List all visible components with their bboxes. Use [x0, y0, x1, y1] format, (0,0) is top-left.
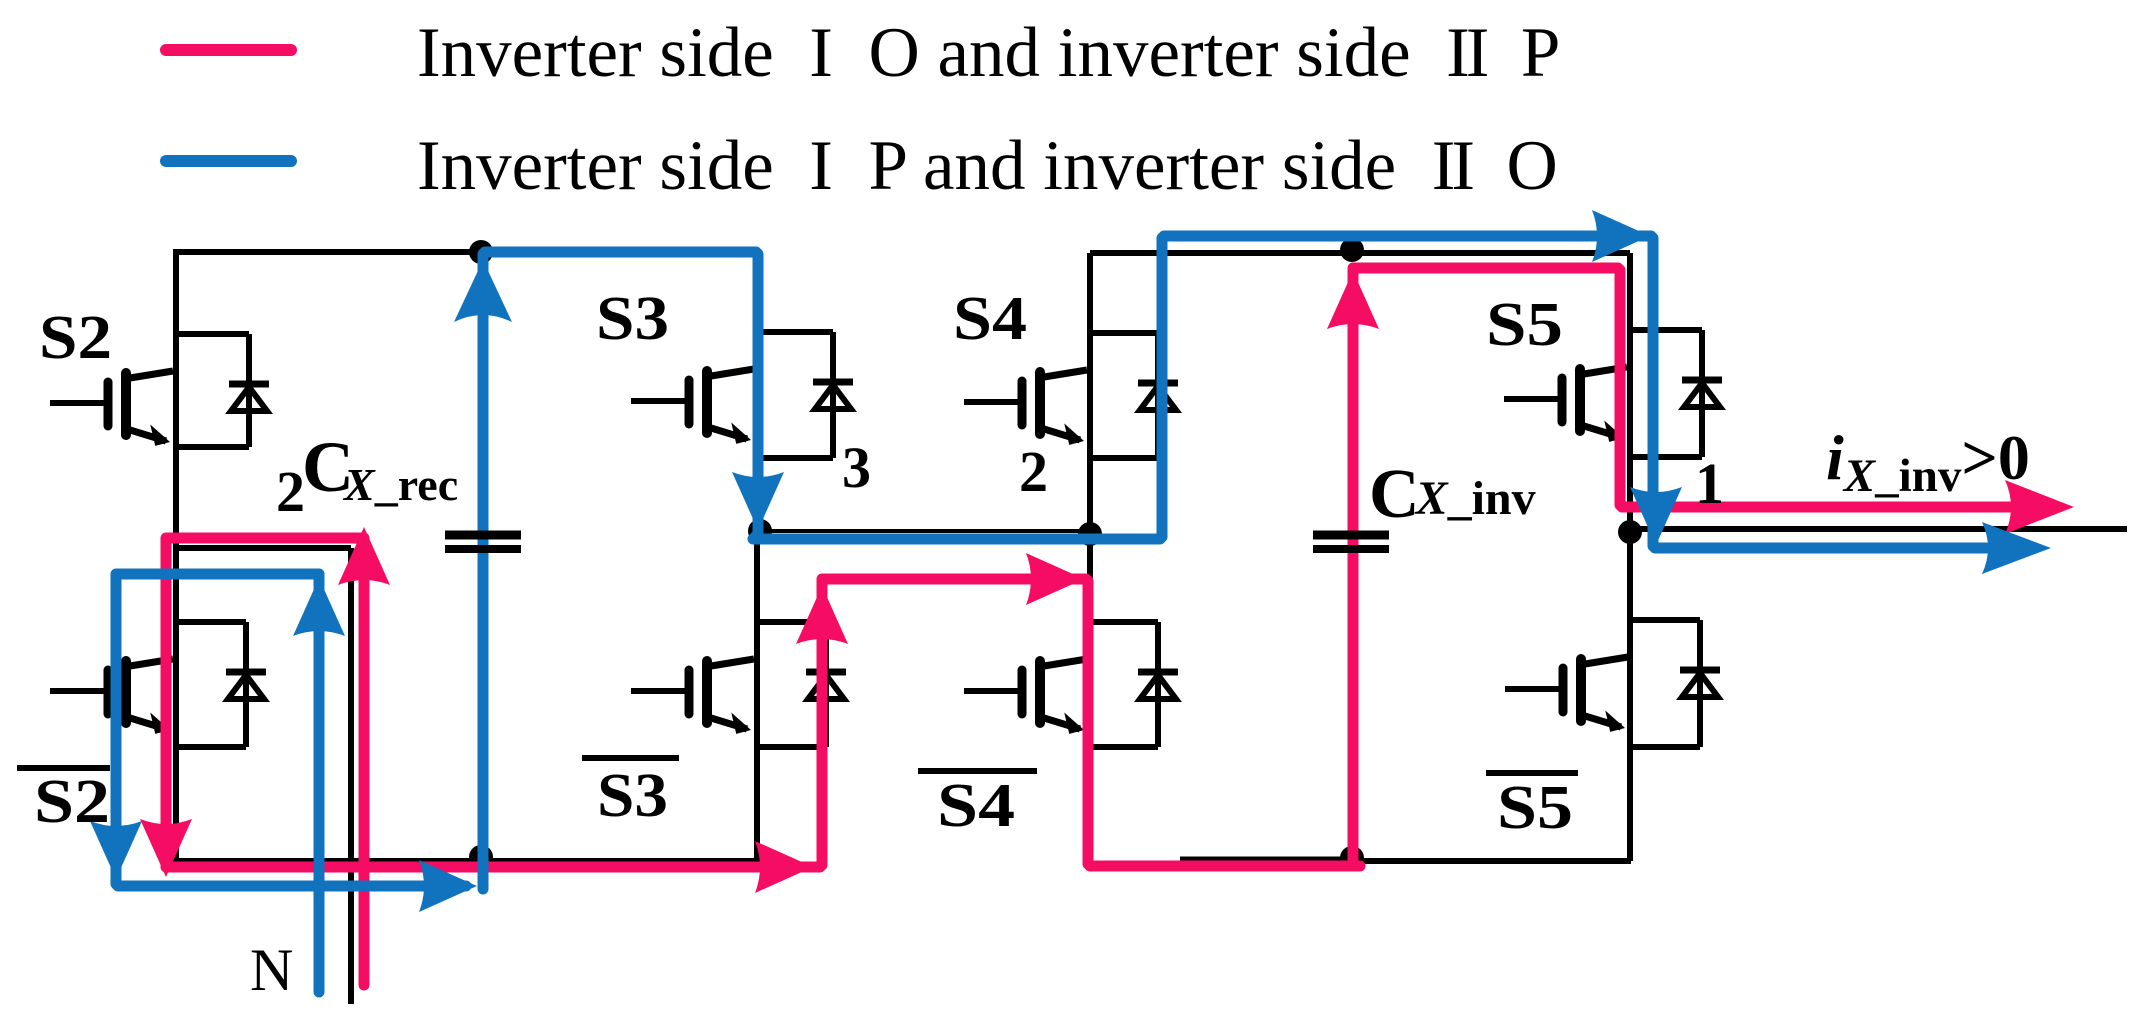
svg-text:S3: S3: [596, 285, 669, 353]
svg-text:S2: S2: [34, 768, 110, 836]
svg-text:2: 2: [1019, 439, 1048, 504]
svg-text:S5: S5: [1486, 291, 1563, 359]
svg-text:S3: S3: [597, 762, 668, 830]
svg-text:Inverter side I P and invert: Inverter side I P and inverter side II O: [417, 127, 1558, 205]
svg-text:S4: S4: [937, 772, 1015, 840]
svg-text:S5: S5: [1497, 774, 1573, 842]
svg-text:Inverter side I O and invert: Inverter side I O and inverter side II P: [417, 14, 1560, 92]
svg-text:2: 2: [276, 459, 305, 524]
svg-text:S4: S4: [953, 285, 1027, 353]
svg-text:1: 1: [1695, 451, 1724, 516]
svg-text:3: 3: [842, 435, 871, 500]
svg-text:S2: S2: [39, 304, 112, 372]
svg-text:N: N: [250, 937, 293, 1003]
